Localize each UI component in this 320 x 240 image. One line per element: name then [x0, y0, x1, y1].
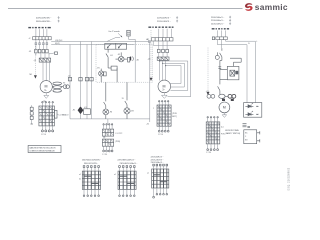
- svg-text:L2: L2: [257, 114, 259, 116]
- svg-text:380V-440V/3N ~: 380V-440V/3N ~: [36, 21, 52, 23]
- svg-text:-H2: -H2: [109, 112, 112, 114]
- svg-text:-H3: -H3: [131, 111, 134, 113]
- svg-text:220V/380V-60Hz/3 ~: 220V/380V-60Hz/3 ~: [117, 160, 136, 162]
- svg-text:N(L2): N(L2): [55, 43, 60, 45]
- svg-text:220V-240V/3 ~: 220V-240V/3 ~: [157, 21, 172, 23]
- svg-text:CONEXION SEGUN NORMA CEI: CONEXION SEGUN NORMA CEI: [29, 149, 55, 152]
- svg-text:-F1: -F1: [29, 51, 32, 53]
- svg-text:-F2: -F2: [63, 82, 66, 84]
- svg-text:M: M: [45, 85, 48, 89]
- svg-text:-C1: -C1: [206, 91, 209, 93]
- svg-text:a: a: [153, 108, 154, 110]
- svg-text:Con 2º mando: Con 2º mando: [108, 30, 119, 33]
- svg-text:sammic: sammic: [255, 2, 288, 12]
- svg-text:230V/400V-50Hz/3N ~: 230V/400V-50Hz/3N ~: [82, 160, 102, 162]
- svg-text:-K1: -K1: [84, 107, 87, 109]
- svg-text:1 2 3 4: 1 2 3 4: [206, 152, 211, 154]
- svg-text:-X2: -X2: [68, 75, 71, 77]
- svg-text:M1: M1: [30, 74, 33, 76]
- svg-text:-R1: -R1: [73, 110, 76, 112]
- svg-text:1 2 3 4: 1 2 3 4: [102, 154, 107, 156]
- svg-text:1 2 3 4: 1 2 3 4: [158, 134, 163, 136]
- svg-text:220V-60Hz/3 ~: 220V-60Hz/3 ~: [151, 157, 165, 159]
- svg-text:C.I. POT.: C.I. POT.: [115, 133, 123, 135]
- svg-text:(SAFETY SWITCH): (SAFETY SWITCH): [225, 132, 240, 135]
- svg-text:380V-415V/3N ~: 380V-415V/3N ~: [84, 163, 99, 165]
- svg-text:L: L: [257, 41, 258, 43]
- svg-text:MICROINT. TAPA: MICROINT. TAPA: [225, 129, 239, 132]
- svg-text:A1: A1: [137, 58, 139, 61]
- svg-text:230V-50Hz/1 ~: 230V-50Hz/1 ~: [211, 17, 225, 19]
- svg-text:a1: a1: [147, 172, 149, 174]
- svg-text:-S1: -S1: [110, 55, 113, 57]
- svg-text:a1: a1: [79, 174, 81, 176]
- svg-text:C.I. MANDO: C.I. MANDO: [58, 113, 69, 116]
- svg-text:-H1: -H1: [97, 68, 100, 70]
- svg-text:MOT): MOT): [172, 116, 177, 118]
- svg-text:M: M: [223, 105, 226, 109]
- svg-text:230V/400V-50Hz/3 ~: 230V/400V-50Hz/3 ~: [120, 163, 139, 165]
- svg-text:-Q1: -Q1: [148, 59, 151, 61]
- svg-text:-K1: -K1: [118, 54, 121, 56]
- svg-text:220V-60Hz/3 ~: 220V-60Hz/3 ~: [157, 17, 172, 19]
- svg-text:95: 95: [122, 98, 124, 100]
- svg-text:L1(L2)L3: L1(L2)L3: [55, 40, 62, 42]
- svg-text:L1: L1: [257, 106, 259, 108]
- svg-text:-Q1: -Q1: [33, 60, 36, 62]
- svg-text:220V-240V/3 ~: 220V-240V/3 ~: [151, 159, 165, 161]
- svg-text:400V-50Hz/3N ~: 400V-50Hz/3N ~: [36, 17, 52, 19]
- svg-text:1 2 3 4: 1 2 3 4: [41, 134, 46, 136]
- svg-text:(PCB): (PCB): [115, 141, 120, 143]
- svg-text:-X2: -X2: [146, 123, 149, 125]
- svg-text:a1: a1: [114, 174, 116, 176]
- svg-text:b1: b1: [79, 179, 81, 181]
- svg-text:240V-50Hz/1 ~: 240V-50Hz/1 ~: [211, 23, 225, 25]
- svg-text:ESQ. 2105269/03: ESQ. 2105269/03: [288, 167, 291, 190]
- svg-text:220V-60Hz/1 ~: 220V-60Hz/1 ~: [211, 20, 225, 22]
- svg-text:CABLES DE RED NO INCLUIDOS: CABLES DE RED NO INCLUIDOS: [29, 147, 56, 150]
- svg-text:M: M: [163, 84, 166, 88]
